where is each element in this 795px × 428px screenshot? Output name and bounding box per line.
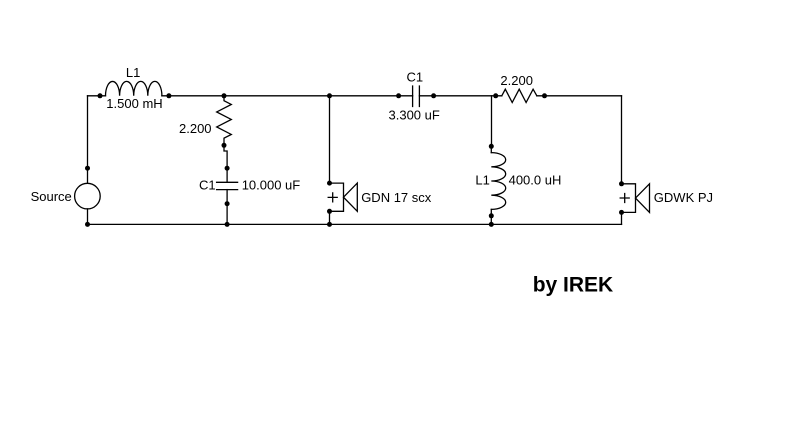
wire GDN branch bottom — [329, 211, 331, 224]
node dot top rail left of inductor — [98, 93, 103, 98]
plus sign GDWK — [620, 194, 629, 203]
capacitor C1 10.000 uF (plates) — [217, 182, 238, 189]
node dot source top — [85, 166, 90, 171]
wire bottom rail — [88, 223, 622, 225]
svg-text:L1: L1 — [126, 65, 140, 80]
resistor 2.200 (vertical zigzag) — [217, 96, 232, 146]
node dot GDN branch top — [327, 93, 332, 98]
node dot top rail right of inductor — [166, 93, 171, 98]
svg-text:GDN 17 scx: GDN 17 scx — [361, 190, 432, 205]
wire T junction to inductor L1 — [491, 96, 493, 147]
node dot capacitor 10uF bottom — [225, 201, 230, 206]
wire top rail rightmost segment — [537, 95, 622, 97]
wire inductor bottom stub — [490, 209, 492, 215]
wire capacitor to bottom rail — [226, 204, 228, 225]
wire capacitor C1 bottom stub — [226, 190, 228, 204]
capacitor C1 3.300 uF (plates) — [413, 86, 420, 107]
node dot capacitor 10uF top — [225, 166, 230, 171]
node dot GDN bottom terminal — [327, 209, 332, 214]
svg-text:1.500 mH: 1.500 mH — [106, 96, 162, 111]
wire GDWK speaker rectangle — [622, 184, 636, 213]
wire inductor top stub — [490, 146, 492, 152]
speaker GDWK PJ (cone triangle) — [636, 184, 650, 213]
node dot capacitor 3.3uF left — [396, 93, 401, 98]
node dot inductor 400uH top — [489, 144, 494, 149]
node dot capacitor 3.3uF right — [431, 93, 436, 98]
svg-text:10.000 uF: 10.000 uF — [242, 177, 301, 192]
inductor L1 400.0 uH (vertical arcs) — [491, 153, 505, 210]
svg-text:GDWK PJ: GDWK PJ — [654, 190, 713, 205]
wire top rail right of capacitor — [419, 95, 501, 97]
inductor L1 1.500 mH (horizontal arcs) — [106, 81, 162, 95]
node dot source bottom — [85, 222, 90, 227]
node dot inductor 400uH bottom — [489, 213, 494, 218]
svg-text:400.0 uH: 400.0 uH — [509, 173, 562, 188]
wire jog resistor to capacitor — [224, 145, 227, 168]
svg-text:C1: C1 — [199, 177, 216, 192]
svg-text:2.200: 2.200 — [500, 73, 533, 88]
svg-text:2.200: 2.200 — [179, 121, 212, 136]
node dot GDWK top terminal — [619, 181, 624, 186]
source circle — [75, 183, 101, 209]
wire top rail left segment — [88, 95, 106, 97]
wire left vertical above source — [87, 96, 89, 184]
node dot resistor 2.200 right — [542, 93, 547, 98]
wire capacitor C1 top stub — [226, 168, 228, 182]
svg-text:Source: Source — [31, 189, 72, 204]
wire inductor to bottom rail — [490, 216, 492, 225]
speaker GDN 17 scx (rectangle) — [330, 183, 344, 211]
svg-text:by IREK: by IREK — [533, 273, 614, 296]
node dot GDN top terminal — [327, 181, 332, 186]
node dot bottom rail at inductor branch — [489, 222, 494, 227]
node dot resistor bottom — [222, 143, 227, 148]
plus sign GDN — [328, 193, 337, 202]
speaker GDN 17 scx (cone triangle) — [344, 183, 358, 211]
wire GDWK bottom to rail — [621, 212, 623, 224]
svg-text:3.300 uF: 3.300 uF — [389, 107, 440, 122]
node dot resistor 2.200 left — [493, 93, 498, 98]
svg-text:L1: L1 — [475, 173, 489, 188]
wire top rail middle segment — [162, 95, 413, 97]
wire GDN branch top — [329, 96, 331, 183]
svg-text:C1: C1 — [407, 69, 424, 84]
wire right vertical down to speaker — [621, 96, 623, 184]
node dot resistor top — [222, 93, 227, 98]
wire source bottom — [87, 209, 89, 225]
node dot bottom rail at GDN branch — [327, 222, 332, 227]
node dot GDWK bottom terminal — [619, 210, 624, 215]
node dot bottom rail at capacitor branch — [225, 222, 230, 227]
resistor 2.200 (horizontal zigzag) — [502, 89, 537, 102]
